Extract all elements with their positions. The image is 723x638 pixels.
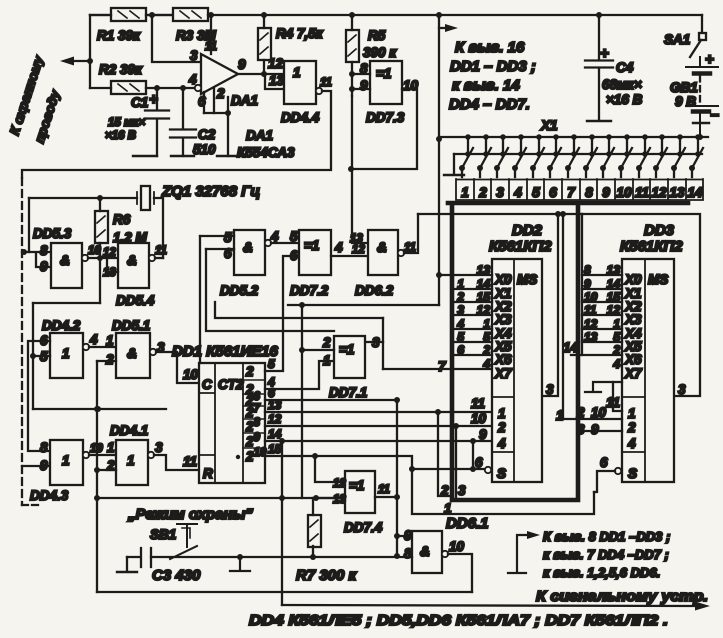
junction 2^10 DD7.4 [312,453,318,459]
bubble DD4.4 output [316,88,322,94]
battery GB1 [686,57,718,137]
X1 contact 3 [494,134,508,177]
wire DD5.2 out to DD7.2 pin5 [271,242,299,244]
svg-text:9: 9 [40,458,48,473]
svg-text:4: 4 [612,357,620,371]
svg-text:1: 1 [457,277,464,291]
wire DD7.4 pin13 [316,497,345,499]
wire DD5.1 pin2 [97,360,116,362]
wire bus2 to common [453,154,455,174]
svg-text:1: 1 [62,346,70,361]
svg-text:1: 1 [444,501,452,516]
junction X0 tap [436,272,442,278]
wire R5 bottom [351,62,353,96]
X1 contact 6 [547,134,561,177]
bubble DD3 S input [615,468,621,474]
bubble DD5.2 output [265,240,271,246]
svg-text:DD3: DD3 [644,222,675,239]
capacitor C2 [170,88,196,156]
logic gate DD5.1 [116,333,150,378]
svg-text:DD5.3: DD5.3 [33,226,72,241]
svg-text:4: 4 [89,332,98,347]
svg-text:2: 2 [576,405,585,420]
svg-text:к выв. 14: к выв. 14 [452,77,520,94]
svg-text:4: 4 [497,436,506,451]
svg-text:11: 11 [155,245,167,257]
svg-text:CT2: CT2 [218,377,244,392]
wire R7 bottom [312,546,314,557]
signal output line with arrow [282,605,700,606]
svg-text:8: 8 [585,185,593,200]
wire DD5.1 out to counter C [156,352,199,383]
junction R6 bottom [97,255,103,261]
wire crystal left [29,197,137,199]
svg-text:2: 2 [497,420,506,435]
logic gate DD5.3 [51,243,82,288]
svg-text:+: + [149,91,158,108]
logic gate DD4.3 [50,440,83,485]
junction R4 rail [261,12,267,18]
wire 2^0 to DD7.2 pin6 [265,256,299,371]
svg-text:4: 4 [627,436,636,451]
X1 contact 14 [689,134,703,177]
svg-text:DD4.4: DD4.4 [281,110,320,125]
wire 2^9 to DD2 pin9 [265,440,491,442]
common bar X1 left [444,174,464,176]
X1 contact 9 [600,134,614,177]
junction DD7.1 pin2 [299,347,305,353]
junction pin9 [394,533,400,539]
svg-text:10: 10 [591,405,607,420]
svg-text:C1: C1 [131,95,148,110]
svg-text:390 к: 390 к [363,45,397,60]
wire DD6.1 pin9 stub [397,535,412,537]
X1 contact 12 [653,134,667,177]
wire osc node down [99,258,101,303]
junction 2^6 [394,397,400,403]
junction S branch [409,466,415,472]
bubble DD6.1 output [442,551,448,557]
svg-text:&: & [420,544,430,559]
svg-text:2: 2 [322,335,331,350]
wire pin6-pin2 join [204,112,228,114]
junction ground SB1 [237,554,243,560]
svg-text:12: 12 [268,412,282,426]
op-amp comparator DA1 [201,54,238,94]
svg-text:5: 5 [457,330,464,344]
wire R3 right [208,14,211,16]
logic gate DD7.2 [299,230,331,275]
svg-text:&: & [127,346,137,361]
svg-text:14: 14 [268,427,282,441]
resistor R2 [111,81,146,94]
wire DD3 select 419 [563,418,622,420]
wire R4 top [263,15,265,28]
svg-text:К выв. 16: К выв. 16 [455,39,525,56]
svg-text:2: 2 [478,185,487,200]
svg-text:9: 9 [404,528,412,543]
svg-text:DD7.2: DD7.2 [290,283,329,298]
input arrow to guard wire [74,60,90,62]
wire long left vertical [96,361,98,592]
svg-text:6: 6 [290,248,298,263]
svg-text:510: 510 [193,142,216,157]
wire R1 to R3 [146,14,173,16]
logic gate DD4.4 [284,61,316,104]
junction C1 top [154,85,160,91]
junction pin8 chain [394,553,400,559]
svg-text:12: 12 [268,56,284,71]
svg-text:R2 39к: R2 39к [99,62,143,77]
wire DD5.3 out to DD5.4 [88,257,118,259]
svg-text:1: 1 [127,453,135,468]
junction alarm 498 [279,495,285,501]
junction left vert 498 [94,495,100,501]
mark inside counter [236,455,240,459]
svg-text:8: 8 [584,263,591,277]
junction R7 top [313,495,319,501]
svg-text:DD7.1: DD7.1 [329,385,367,400]
wire DD3 select 431 [578,430,622,432]
wire osc left vertical [28,198,30,252]
svg-text:S: S [628,466,637,481]
svg-text:к выв. 1,2,5,6 DD6.: к выв. 1,2,5,6 DD6. [543,565,660,580]
wire DD7.4 out [375,496,397,498]
svg-text:1: 1 [628,406,636,421]
svg-text:3: 3 [577,422,585,437]
wire DD4.4 output feedback loop [22,91,331,178]
X1 contact 4 [512,134,526,177]
svg-text:15: 15 [268,442,282,456]
junction S wire [470,466,476,472]
capacitor C1 [133,88,169,156]
wire R5 node down to DD6.2 pin13 [352,96,368,243]
svg-text:=1: =1 [349,478,364,493]
node input [87,58,93,64]
resistor R5 [346,30,359,62]
wire feedback dashed hook [22,504,40,506]
wire DD5.2 pin6 [206,248,234,250]
svg-text:X7: X7 [494,366,513,381]
wire DD5.3 pin9 hook [36,254,51,267]
wire to DD4.3 pin9 [22,465,50,467]
svg-text:X0: X0 [494,272,512,287]
svg-text:2: 2 [216,86,225,101]
resistor R7 [308,515,321,547]
svg-text:4: 4 [482,357,490,371]
capacitor C3 [117,548,151,572]
junction pin5 tap [30,353,36,359]
svg-text:1: 1 [62,453,70,468]
wire DD4.1 pin2 [97,469,116,471]
wire pin6 loop down [206,249,334,331]
wire DA1 pin2 down to common [227,97,229,156]
wire pin8 [411,556,412,558]
thick program bus ring [448,203,688,500]
svg-text:R: R [203,466,213,481]
svg-text:2: 2 [456,290,464,304]
resistor R6 [95,211,108,243]
svg-text:К сигнальному устр.: К сигнальному устр. [536,588,708,605]
svg-text:10: 10 [584,290,598,304]
wire 2^6 column down [396,400,398,556]
svg-text:&: & [243,240,253,255]
svg-text:1: 1 [461,185,469,200]
junction 2^9 left [279,438,285,444]
svg-text:X6: X6 [624,352,642,367]
wire R6 top [99,198,101,211]
wire DD4.2 out to DD5.1 pin1 [89,346,116,348]
svg-text:2: 2 [245,364,254,379]
wire R7 top [312,498,314,515]
multiplexer DD2 [492,259,542,482]
svg-text:5: 5 [290,229,298,244]
svg-text:DD7.4: DD7.4 [344,520,383,535]
wire DD6.1 out down [448,554,472,592]
wire top +9V rail [90,14,702,16]
junction C4 rail [596,12,602,18]
wire DA1 pin2 left side [213,88,215,113]
wire DD3 output routing [582,214,700,396]
junction pin2 [94,467,100,473]
svg-text:C: C [202,377,212,392]
bubble DA1 inverting input [195,85,201,91]
X1 contact 10 [618,134,632,177]
svg-text:R7 300 к: R7 300 к [296,567,358,584]
wire crystal right down [154,198,163,258]
bubble DD6.2 output [398,250,404,256]
bubble DD5.3 output [82,255,88,261]
svg-text:10: 10 [449,539,465,554]
junction DD7.4 out [394,494,400,500]
wire rail to SA1 [701,15,703,33]
wire to R2 [90,87,111,89]
svg-text:4: 4 [513,185,522,200]
junction left vert 409 [94,406,100,412]
ground-arrow symbol pins note [508,531,540,573]
junction R4 bottom [261,71,267,77]
wire DD3 input ladder vertical [581,214,583,355]
wire guard mode line [97,497,345,499]
svg-text:SA1: SA1 [664,32,690,47]
junction GB1 bus [697,134,703,140]
capacitor C4 [585,17,613,121]
wire DD4.4 pin13 stub [265,74,284,89]
svg-text:9: 9 [360,78,368,93]
logic gate DD5.4 [118,243,149,288]
junction R5 rail [349,12,355,18]
logic gate DD7.4 [345,471,375,513]
svg-text:DD4 – DD7.: DD4 – DD7. [449,96,530,113]
wire DD7.1 output [366,341,383,343]
wire junction to DA1 pin3 [152,15,201,62]
wire rail to DD7.1 pin2 [302,305,334,350]
X1 contact 1 [459,134,473,177]
svg-text:R6: R6 [113,212,131,227]
svg-text:×16 В: ×16 В [606,92,643,107]
wire 2^7 branch to bus [438,412,452,496]
bubble DD2 S input [485,467,491,473]
junction R7 bottom [310,554,316,560]
wire R5 to DD7.3 pin8 [352,73,370,75]
svg-text:14: 14 [687,185,703,200]
svg-text:ZQ1 32768 Гц: ZQ1 32768 Гц [161,183,260,200]
svg-text:10: 10 [183,367,199,382]
svg-text:DA1: DA1 [231,93,258,108]
svg-text:1: 1 [498,406,506,421]
junction pin2 [225,110,231,116]
logic gate DD4.2 [50,333,83,378]
wire DA1 output to DD4.4 [238,73,284,75]
junction 214 tap [560,211,566,217]
svg-text:DD6.1: DD6.1 [446,515,489,532]
svg-text:10: 10 [471,411,487,426]
resistor R4 [258,28,271,60]
svg-text:X3: X3 [624,312,642,327]
wire 2^7 to DD2 pin11 [265,411,491,413]
svg-text:DD4.3: DD4.3 [30,488,69,503]
junction R6 top [97,195,103,201]
svg-text:X1: X1 [540,118,558,133]
svg-text:DD5.1: DD5.1 [112,318,150,333]
svg-text:MS: MS [517,272,537,287]
svg-text:11: 11 [584,303,597,317]
svg-text:=1: =1 [304,238,319,253]
svg-text:1: 1 [106,333,114,348]
junction 2^7 [435,409,441,415]
svg-text:к выв. 7 DD4 –DD7 ;: к выв. 7 DD4 –DD7 ; [543,547,669,562]
svg-text:3: 3 [458,483,466,498]
wire bottom return [97,591,472,593]
svg-text:13: 13 [269,73,285,88]
svg-text:DD6.2: DD6.2 [355,283,394,298]
svg-text:&: & [60,253,70,268]
wire DA1 pin11 to rail [210,15,212,54]
bubble DD4.2 output [83,344,89,350]
X1 contact 5 [530,134,544,177]
svg-text:6: 6 [475,455,483,470]
svg-text:C3 430: C3 430 [152,567,201,584]
svg-text:DD5.2: DD5.2 [220,283,259,298]
svg-text:DA1: DA1 [246,128,273,143]
svg-text:9: 9 [584,277,591,291]
junction power note [436,12,442,18]
logic gate DD6.1 [412,531,442,573]
svg-text:12: 12 [584,317,598,331]
svg-text:DD2: DD2 [512,222,543,239]
wire to power pins note [439,27,444,29]
wire DD6.2 out up [404,214,418,253]
ground right of SB1 [230,557,250,571]
svg-text:11: 11 [378,484,390,496]
svg-text:2: 2 [627,420,636,435]
X1 contact 13 [671,134,685,177]
svg-text:13: 13 [333,494,346,506]
wire R4 bottom [263,60,265,74]
wire input node vertical [89,15,91,88]
wire rail branch down to X0 [438,15,440,305]
svg-text:DD7.3: DD7.3 [366,110,405,125]
svg-text:5: 5 [532,185,540,200]
svg-text:X7: X7 [624,366,643,381]
counter DD1 [199,363,265,483]
bubble DD4.1 output [148,452,154,458]
wire rail 305 [288,304,439,306]
svg-text:4: 4 [334,240,343,255]
wire DD7.2 out to DD6.2 pin12 [331,255,368,257]
wire 2^10 S interconnect [265,456,594,514]
svg-text:3: 3 [190,48,198,63]
junction rail DD7.1 tap [299,302,305,308]
svg-text:MS: MS [648,272,668,287]
multiplexer DD3 [622,259,674,482]
svg-text:11: 11 [183,454,197,469]
junction bus tap [436,136,442,142]
svg-text:1: 1 [293,65,301,80]
svg-text:−: − [710,107,719,124]
wire DD2 output up [542,214,558,396]
svg-text:12: 12 [103,247,116,259]
wire left vertical to latch [32,303,34,409]
svg-text:4: 4 [270,229,279,244]
wire DD5.2 pin5 [200,235,234,237]
svg-text:2: 2 [440,483,449,498]
svg-text:SB1: SB1 [150,527,176,542]
svg-text:1: 1 [556,408,564,423]
svg-text:8: 8 [40,440,48,455]
svg-text:12: 12 [333,478,346,490]
svg-text:DD4 К561ЛЕ5 ; DD5,DD6 К561Л: DD4 К561ЛЕ5 ; DD5,DD6 К561ЛА7 ; DD7 К561… [249,612,668,629]
wire R5 top [351,15,353,30]
svg-text:11: 11 [320,77,332,89]
logic gate DD6.2 [368,230,398,275]
logic gate DD4.1 [116,440,148,485]
wire DD4.2 pin6 to DD4.3 pin8 couple [28,341,50,451]
counter output cell dividers [243,380,265,448]
wire to DD5.3 pin8 [22,251,51,253]
wire link 214 [418,213,582,215]
svg-text:R5: R5 [368,28,386,43]
svg-text:6: 6 [600,455,608,470]
wire X1 top bus [439,136,708,138]
svg-text:9: 9 [40,259,48,274]
wire to DD2 X7 [383,368,492,370]
wire DD7.3 pin9 [352,88,370,90]
resistor R3 [173,8,208,21]
svg-text:2: 2 [105,352,114,367]
wire DA1 pin6 down [203,92,205,113]
common bar under DA1 [217,155,240,157]
crystal ZQ1 [137,186,154,210]
svg-text:9: 9 [602,185,610,200]
svg-text:3: 3 [496,185,504,200]
X1 contact 7 [565,134,579,177]
junction DD2 out 214 [555,211,561,217]
svg-text:+: + [600,45,609,62]
wire osc node left [33,302,100,304]
wire tap down to guard line [301,350,303,498]
wire DD4.1 out to counter R [154,455,199,470]
svg-text:9 В: 9 В [675,94,696,109]
bubble DD5.4 output [149,255,155,261]
svg-text:„Режим охраны”: „Режим охраны” [127,506,253,523]
ground DD3 X7 [585,382,622,392]
X1 contact 8 [583,134,597,177]
svg-text:X6: X6 [494,352,512,367]
svg-text:3: 3 [457,303,464,317]
wire alarm vertical to signal line [281,441,283,605]
svg-text:13: 13 [584,330,598,344]
